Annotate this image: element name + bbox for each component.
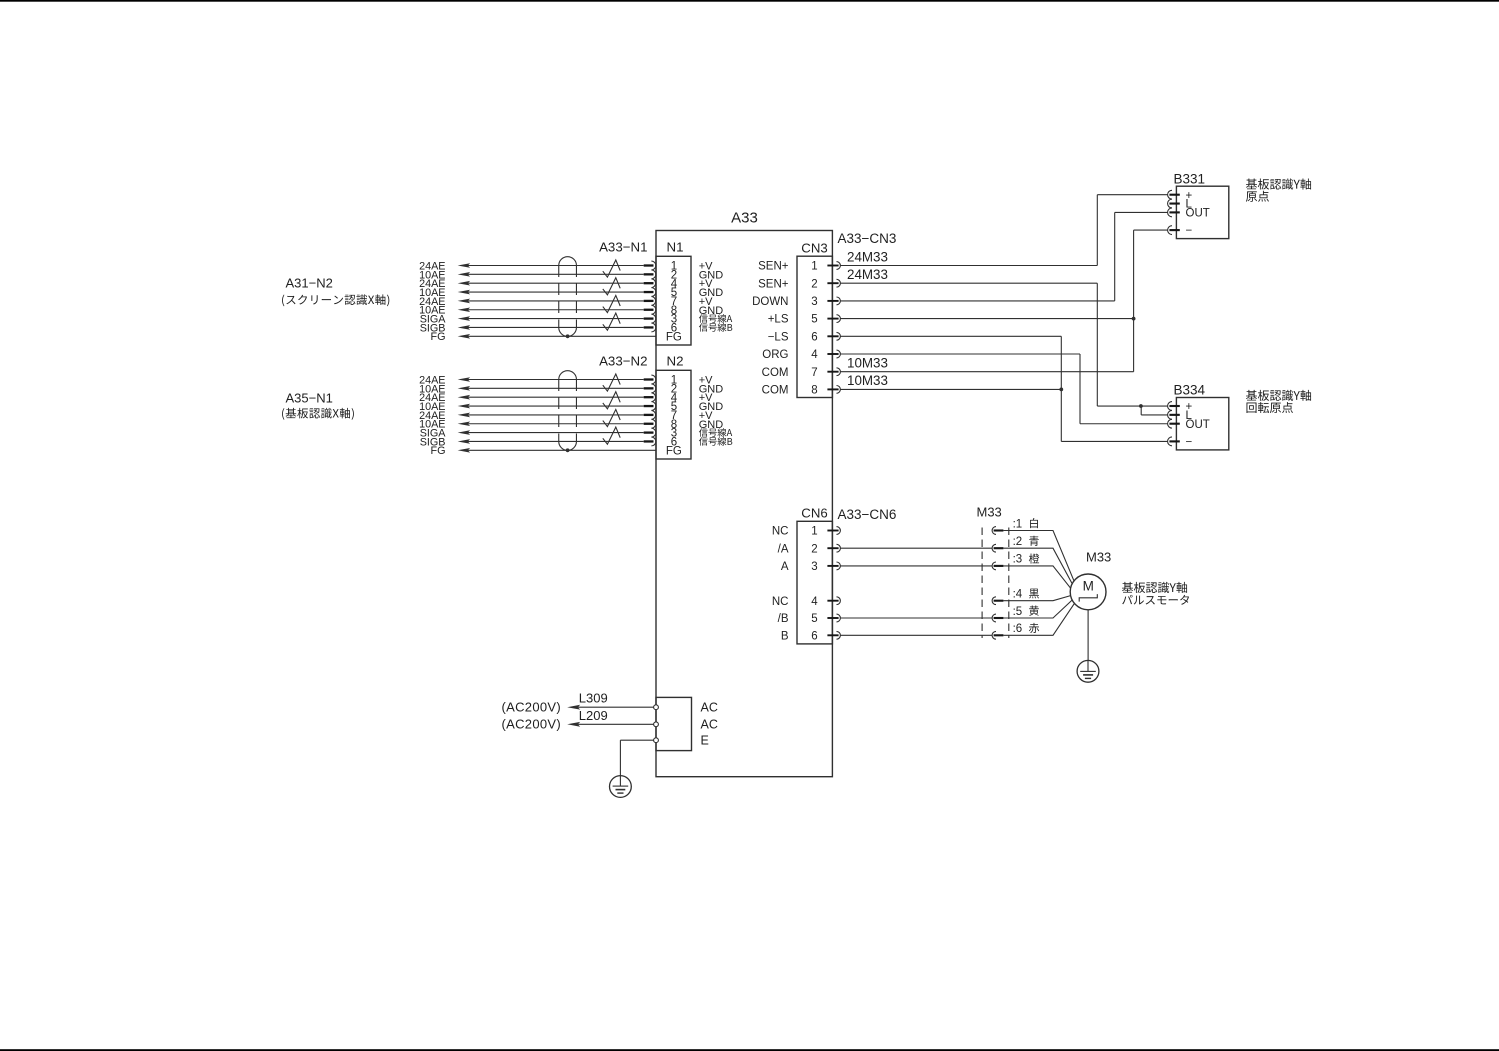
svg-text:L309: L309 — [579, 691, 608, 706]
svg-text:FG: FG — [666, 331, 682, 343]
svg-text:ORG: ORG — [762, 349, 788, 361]
pin symbol M33-6 — [992, 631, 1003, 639]
signal DOWN CN3 — [752, 296, 788, 308]
top border bar — [0, 0, 1499, 2]
wire M33-4 to motor — [1003, 596, 1070, 601]
label +V N1 row 3 — [699, 278, 713, 290]
pin − B334 — [1186, 437, 1193, 449]
connector N1 label N1 — [667, 239, 684, 254]
pin symbol CN3-6 — [827, 332, 840, 340]
svg-text:B334: B334 — [1174, 383, 1206, 398]
svg-text:NC: NC — [772, 596, 789, 608]
wire M33-6 to motor — [1003, 603, 1074, 635]
node label (スクリーン認識X軸) — [282, 294, 389, 306]
pin + B331 — [1186, 190, 1193, 202]
pin 6 N2 — [671, 437, 677, 449]
wire N1 FG (row 9) — [431, 331, 657, 343]
net label L309 — [579, 691, 608, 706]
label 信号線A N2 — [699, 428, 732, 437]
svg-text:A35−N1: A35−N1 — [286, 391, 333, 406]
label E (AC box) — [701, 734, 709, 748]
pin 3 N1 — [671, 314, 677, 326]
svg-text:M33: M33 — [977, 505, 1002, 520]
pin 5 N1 — [671, 287, 677, 299]
svg-text:5: 5 — [811, 314, 817, 326]
signal COM CN3 — [762, 367, 789, 379]
wire N1 24AE (row 1) — [419, 260, 653, 272]
net label 10M33 (pin8) — [847, 373, 888, 388]
label 信号線B N2 — [699, 437, 732, 446]
annotation パルスモータ (motor) — [1122, 595, 1189, 605]
motor M33 pulse symbol — [1079, 594, 1097, 602]
pin 6 CN6 — [811, 630, 817, 642]
signal NC CN6 row1 — [772, 526, 789, 538]
svg-text:2: 2 — [811, 543, 817, 555]
motor M33 circle — [1070, 574, 1106, 610]
wire CN6-3 to M33-3 — [840, 565, 992, 567]
wire CN3-7 to B331- (10M33) — [840, 230, 1168, 372]
label AC (AC box) — [701, 701, 718, 715]
pin 3 CN3 — [811, 296, 817, 308]
pin 7 N1 — [671, 296, 677, 308]
svg-text:DOWN: DOWN — [752, 296, 788, 308]
ground (AC earth) — [610, 776, 632, 798]
svg-text:−: − — [1186, 225, 1193, 237]
label AC (AC box) — [701, 718, 718, 732]
wire N2 SIGB (row 8) — [420, 436, 654, 448]
svg-text:10M33: 10M33 — [847, 356, 888, 371]
wire CN3-3 to B331 OUT — [840, 212, 1168, 301]
svg-text:A: A — [781, 561, 789, 573]
wire CN6-6 to M33-6 — [840, 634, 992, 636]
wire M33-2 to motor — [1003, 548, 1072, 584]
pin 4 CN6 — [811, 596, 818, 608]
pin 2 N2 — [671, 383, 677, 395]
pin 6 CN3 — [811, 331, 817, 343]
signal COM CN3 — [762, 385, 789, 397]
wire N1 10AE (row 4) — [419, 287, 653, 299]
connector N2 label A33-N2 — [599, 353, 647, 368]
wire CN6-5 to M33-5 — [840, 617, 992, 619]
sensor B331 box — [1176, 186, 1228, 238]
net label L209 — [579, 708, 608, 723]
connector N2 label N2 — [667, 353, 684, 368]
sensor B331 pin bars — [1169, 194, 1179, 232]
pin FG N1 — [666, 331, 682, 343]
svg-text:L209: L209 — [579, 708, 608, 723]
net label 10M33 (pin7) — [847, 356, 888, 371]
annotation 基板認識Y軸 (B331) — [1246, 179, 1311, 190]
pin symbol CN6-1 — [827, 527, 840, 535]
svg-text:7: 7 — [811, 367, 817, 379]
twisted-pair symbol N2 pair 1 — [603, 374, 620, 391]
sensor B334 minus coil — [1168, 437, 1172, 446]
label 信号線A N1 — [699, 314, 732, 323]
wire N2 10AE (row 2) — [419, 383, 653, 395]
wire CN3-6 to B334- (-LS) — [840, 336, 1168, 441]
signal SEN+ CN3 — [758, 261, 789, 273]
junction COM8 / -LS net — [1059, 388, 1063, 392]
pin 2 CN6 — [811, 543, 817, 555]
junction N2 FG / shield — [566, 448, 570, 452]
connector N1 pin entry scallops — [651, 261, 655, 332]
svg-text:(AC200V): (AC200V) — [502, 699, 561, 714]
svg-text::3: :3 — [1013, 554, 1023, 566]
net label 24M33 (pin2) — [847, 267, 888, 282]
pin 4 N2 — [671, 392, 678, 404]
pin 5 CN6 — [811, 613, 817, 625]
pin + B334 — [1186, 401, 1193, 413]
pin symbol CN3-5 — [827, 315, 840, 323]
label 信号線B N1 — [699, 323, 732, 332]
svg-text:CN3: CN3 — [801, 240, 827, 255]
wire N1 SIGA (row 7) — [420, 314, 654, 326]
svg-text:24M33: 24M33 — [847, 267, 888, 282]
svg-text:AC: AC — [701, 718, 718, 732]
ground (motor, protective earth) — [1077, 660, 1099, 682]
signal /B CN6 row5 — [778, 613, 789, 625]
wire N1 10AE (row 6) — [419, 305, 653, 317]
signal /A CN6 row2 — [778, 543, 789, 555]
pin symbol CN3-3 — [827, 297, 840, 305]
connector N1 label A33-N1 — [599, 239, 647, 254]
sensor B331 pin coils — [1168, 190, 1172, 217]
pin symbol M33-4 — [992, 597, 1003, 605]
cable shield N2 — [559, 371, 577, 451]
wire N1 24AE (row 3) — [419, 278, 653, 290]
svg-text:OUT: OUT — [1186, 208, 1210, 220]
connector CN3 label A33-CN3 — [838, 231, 897, 246]
net label 24M33 (pin1) — [847, 249, 888, 264]
signal NC CN6 row4 — [772, 596, 789, 608]
twisted-pair symbol N2 pair 3 — [603, 409, 620, 426]
pin 2 CN3 — [811, 278, 817, 290]
wire M33-3 to motor — [1003, 566, 1070, 588]
twisted-pair symbol N1 pair 3 — [603, 295, 620, 312]
label (AC200V) line1 — [502, 699, 561, 714]
label +V N2 row 5 — [699, 410, 713, 422]
svg-text:6: 6 — [811, 331, 817, 343]
label GND N2 row 6 — [699, 419, 724, 431]
connector N2 box — [656, 370, 691, 459]
svg-text:COM: COM — [762, 367, 789, 379]
twisted-pair symbol N2 pair 2 — [603, 392, 620, 409]
label :3 橙 (M33) — [1013, 553, 1040, 565]
connector M33 label — [977, 505, 1002, 520]
wire M33-1 to motor — [1003, 531, 1074, 581]
twisted-pair symbol N1 pair 1 — [603, 260, 620, 277]
annotation 基板認識Y軸 (motor) — [1122, 582, 1187, 593]
wire CN3-2 to B334+ (24M33) — [840, 283, 1168, 406]
svg-text:NC: NC — [772, 526, 789, 538]
label GND N1 row 6 — [699, 305, 724, 317]
label GND N2 row 2 — [699, 383, 724, 395]
node label (基板認識X軸) — [282, 408, 354, 420]
label +V N2 row 1 — [699, 375, 713, 387]
motor M33 label — [1086, 550, 1111, 565]
terminal circle AC — [654, 705, 659, 710]
pin symbol M33-5 — [992, 614, 1003, 622]
wire N2 10AE (row 6) — [419, 419, 653, 431]
svg-text::2: :2 — [1013, 536, 1023, 548]
svg-text:−LS: −LS — [768, 331, 789, 343]
svg-text:10M33: 10M33 — [847, 373, 888, 388]
pin OUT B331 — [1186, 208, 1210, 220]
AC terminal box — [656, 697, 692, 750]
wire N2 10AE (row 4) — [419, 401, 653, 413]
svg-text:N1: N1 — [667, 239, 684, 254]
wire N1 10AE (row 2) — [419, 269, 653, 281]
label GND N2 row 4 — [699, 401, 724, 413]
svg-text:A31−N2: A31−N2 — [286, 276, 333, 291]
pin symbol CN3-8 — [827, 386, 840, 394]
pin symbol CN6-3 — [827, 562, 840, 570]
svg-text:CN6: CN6 — [801, 505, 827, 520]
connector CN6 box — [797, 521, 832, 644]
svg-text:5: 5 — [811, 613, 817, 625]
svg-text:FG: FG — [431, 445, 446, 457]
signal −LS CN3 — [768, 331, 789, 343]
wire N2 SIGA (row 7) — [420, 428, 654, 440]
junction B334 + / L — [1139, 404, 1143, 408]
pin 8 N2 — [671, 419, 677, 431]
pin 5 CN3 — [811, 314, 817, 326]
bottom border bar — [0, 1049, 1499, 1051]
cable shield N1 — [559, 257, 577, 337]
pin 7 CN3 — [811, 367, 817, 379]
sensor B331 minus coil — [1168, 226, 1172, 235]
svg-text:−: − — [1186, 437, 1193, 449]
connector CN3 label CN3 — [801, 240, 827, 255]
svg-text:M33: M33 — [1086, 550, 1111, 565]
pin symbol CN6-6 — [827, 631, 840, 639]
svg-text::1: :1 — [1013, 518, 1023, 530]
svg-text:1: 1 — [811, 526, 817, 538]
svg-text::5: :5 — [1013, 606, 1023, 618]
svg-text:2: 2 — [811, 278, 817, 290]
label A33 — [731, 210, 758, 227]
svg-text:SEN+: SEN+ — [758, 278, 789, 290]
label (AC200V) line2 — [502, 716, 561, 731]
twisted-pair symbol N2 pair 4 — [603, 427, 620, 444]
label :2 青 (M33) — [1013, 536, 1039, 548]
label GND N1 row 2 — [699, 269, 724, 281]
pin symbol CN6-4 — [827, 597, 840, 605]
label +V N1 row 1 — [699, 261, 713, 273]
wire N2 24AE (row 3) — [419, 392, 653, 404]
svg-text:1: 1 — [811, 261, 817, 273]
svg-text:6: 6 — [811, 630, 817, 642]
junction N1 FG / shield — [566, 334, 570, 338]
svg-text:/A: /A — [778, 543, 789, 555]
pin symbol CN3-7 — [827, 368, 840, 376]
connector CN6 label CN6 — [801, 505, 827, 520]
wire CN3-4 to B334 OUT (ORG) — [840, 354, 1168, 424]
svg-text:24M33: 24M33 — [847, 249, 888, 264]
pin symbol CN6-2 — [827, 544, 840, 552]
wire CN3-8 (10M33) — [840, 388, 1061, 390]
twisted-pair symbol N1 pair 2 — [603, 278, 620, 295]
svg-text:B331: B331 — [1174, 171, 1206, 186]
wire N2 24AE (row 5) — [419, 410, 653, 422]
svg-text:+LS: +LS — [768, 314, 789, 326]
pin 7 N2 — [671, 410, 677, 422]
label +V N2 row 3 — [699, 392, 713, 404]
pin symbol CN3-4 — [827, 350, 840, 358]
twisted-pair symbol N1 pair 4 — [603, 313, 620, 330]
wire N1 SIGB (row 8) — [420, 322, 654, 334]
connector M33 dashed boundary right — [1008, 528, 1010, 639]
svg-text:SEN+: SEN+ — [758, 261, 789, 273]
svg-text:FG: FG — [666, 445, 682, 457]
pin − B331 — [1186, 225, 1193, 237]
motor M33 letter M — [1083, 579, 1094, 594]
svg-text:M: M — [1083, 579, 1094, 594]
svg-text:3: 3 — [811, 561, 817, 573]
svg-text:8: 8 — [811, 385, 817, 397]
pin 3 N2 — [671, 428, 677, 440]
pin 1 N1 — [671, 261, 677, 273]
svg-text:A33−N2: A33−N2 — [599, 353, 647, 368]
pin FG N2 — [666, 445, 682, 457]
label :1 白 (M33) — [1013, 518, 1038, 530]
pin symbol CN3-1 — [827, 262, 840, 270]
svg-text:N2: N2 — [667, 353, 684, 368]
pin 4 CN3 — [811, 349, 818, 361]
svg-text:A33−CN3: A33−CN3 — [838, 231, 897, 246]
annotation 基板認識Y軸 (B334) — [1246, 390, 1311, 401]
pin 1 N2 — [671, 375, 677, 387]
wire L209 (AC200V) — [567, 722, 653, 727]
svg-text:4: 4 — [811, 596, 818, 608]
connector CN3 box — [797, 256, 832, 397]
pin L B334 — [1186, 410, 1193, 422]
pin symbol M33-3 — [992, 562, 1003, 570]
connector CN6 label A33-CN6 — [838, 507, 897, 522]
pin 1 CN6 — [811, 526, 817, 538]
label GND N1 row 4 — [699, 287, 724, 299]
wire L309 (AC200V) — [567, 705, 653, 710]
terminal circle AC — [654, 722, 659, 727]
signal ORG CN3 — [762, 349, 788, 361]
node label A35-N1 — [286, 391, 333, 406]
pin 5 N2 — [671, 401, 677, 413]
signal +LS CN3 — [768, 314, 789, 326]
svg-text:A33−CN6: A33−CN6 — [838, 507, 897, 522]
pin symbol M33-2 — [992, 544, 1003, 552]
pin 3 CN6 — [811, 561, 817, 573]
sensor B331 label — [1174, 171, 1206, 186]
pin OUT B334 — [1186, 419, 1210, 431]
wire E to ground — [620, 740, 653, 775]
pin 1 CN3 — [811, 261, 817, 273]
signal A CN6 row3 — [781, 561, 789, 573]
svg-text:4: 4 — [811, 349, 818, 361]
controller A33 box — [656, 231, 832, 777]
svg-text:OUT: OUT — [1186, 419, 1210, 431]
pin 2 N1 — [671, 269, 677, 281]
svg-text:AC: AC — [701, 701, 718, 715]
svg-text:3: 3 — [811, 296, 817, 308]
wire motor to ground — [1087, 610, 1089, 661]
pin 4 N1 — [671, 278, 678, 290]
wire N2 24AE (row 1) — [419, 374, 653, 386]
svg-text:COM: COM — [762, 385, 789, 397]
wire M33-5 to motor — [1003, 600, 1072, 618]
label +V N1 row 5 — [699, 296, 713, 308]
pin symbol M33-1 — [992, 527, 1003, 535]
junction +LS / B331- net — [1132, 317, 1136, 321]
pin 8 N1 — [671, 305, 677, 317]
pin 6 N1 — [671, 323, 677, 335]
signal SEN+ CN3 — [758, 278, 789, 290]
svg-text:A33: A33 — [731, 210, 758, 227]
wire CN3-5 (+LS) — [840, 318, 1133, 320]
pin L B331 — [1186, 199, 1193, 211]
label :4 黒 (M33) — [1013, 589, 1039, 601]
label :5 黄 (M33) — [1013, 606, 1039, 618]
annotation 原点 (B331) — [1246, 191, 1269, 202]
sensor B334 box — [1176, 398, 1228, 450]
label :6 赤 (M33) — [1013, 623, 1040, 635]
signal B CN6 row6 — [781, 630, 789, 642]
wire B334 L link — [1141, 406, 1168, 415]
svg-text::6: :6 — [1013, 623, 1023, 635]
sensor B334 pin bars — [1169, 405, 1179, 443]
wire N1 24AE (row 5) — [419, 296, 653, 308]
wire CN3-1 to B331+ (24M33) — [840, 195, 1168, 266]
svg-text:A33−N1: A33−N1 — [599, 239, 647, 254]
svg-text:(AC200V): (AC200V) — [502, 716, 561, 731]
node label A31-N2 — [286, 276, 333, 291]
terminal circle E — [654, 738, 659, 743]
svg-text:E: E — [701, 734, 709, 748]
svg-text::4: :4 — [1013, 589, 1023, 601]
sensor B334 label — [1174, 383, 1206, 398]
wire N2 FG (row 9) — [431, 445, 657, 457]
annotation 回転原点 (B334) — [1246, 402, 1292, 413]
svg-text:B: B — [781, 630, 789, 642]
connector N1 box — [656, 256, 691, 345]
svg-text:/B: /B — [778, 613, 789, 625]
pin symbol CN3-2 — [827, 279, 840, 287]
sensor B334 pin coils — [1168, 402, 1172, 429]
pin symbol CN6-5 — [827, 614, 840, 622]
connector M33 dashed boundary left — [981, 528, 983, 639]
svg-text:FG: FG — [431, 331, 446, 343]
connector N2 pin entry scallops — [651, 375, 655, 446]
pin 8 CN3 — [811, 385, 817, 397]
wire CN6-2 to M33-2 — [840, 547, 992, 549]
